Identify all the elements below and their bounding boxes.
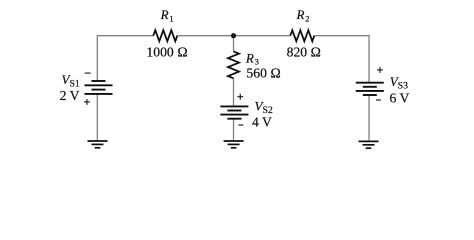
svg-text:2 V: 2 V bbox=[60, 88, 80, 103]
svg-text:4 V: 4 V bbox=[252, 115, 272, 130]
svg-text:R2: R2 bbox=[296, 7, 310, 23]
svg-text:820 Ω: 820 Ω bbox=[287, 45, 321, 60]
svg-text:R1: R1 bbox=[160, 7, 174, 23]
svg-text:560 Ω: 560 Ω bbox=[246, 66, 280, 81]
svg-text:6 V: 6 V bbox=[390, 91, 410, 106]
svg-text:VS3: VS3 bbox=[390, 74, 408, 91]
svg-text:R3: R3 bbox=[245, 50, 259, 66]
svg-text:1000 Ω: 1000 Ω bbox=[146, 44, 187, 59]
svg-text:VS2: VS2 bbox=[255, 98, 273, 115]
